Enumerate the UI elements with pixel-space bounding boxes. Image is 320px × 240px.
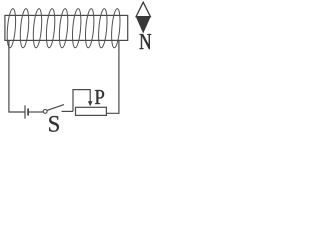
wiper arrowhead: [88, 101, 93, 106]
coil turn 6: [71, 8, 82, 48]
label P: [95, 90, 104, 104]
coil turn 3: [32, 8, 43, 48]
rheostat box: [76, 107, 107, 115]
label S: [49, 116, 59, 132]
wire switch up-over to wiper arrow: [73, 90, 90, 112]
wire battery to switch: [29, 111, 44, 113]
coil turn 4: [45, 8, 56, 48]
solenoid core rectangle: [5, 15, 128, 40]
coil turn 5: [58, 8, 69, 48]
coil turn 1: [6, 8, 17, 48]
wire rheostat right up to coil: [106, 41, 119, 114]
coil turn 2: [19, 8, 30, 48]
battery short plate: [27, 109, 29, 116]
switch blade: [47, 105, 64, 111]
coil turn 9: [110, 8, 121, 48]
compass needle top half (white): [136, 2, 150, 16]
label N: [140, 34, 152, 49]
coil turn 7: [84, 8, 95, 48]
battery long plate: [24, 105, 26, 118]
wire left: coil to bottom-left corner to battery: [9, 41, 25, 112]
switch right contact wire: [62, 110, 74, 112]
coil turn 8: [97, 8, 108, 48]
compass needle bottom half (dark): [136, 17, 150, 33]
switch pivot circle: [43, 110, 47, 114]
